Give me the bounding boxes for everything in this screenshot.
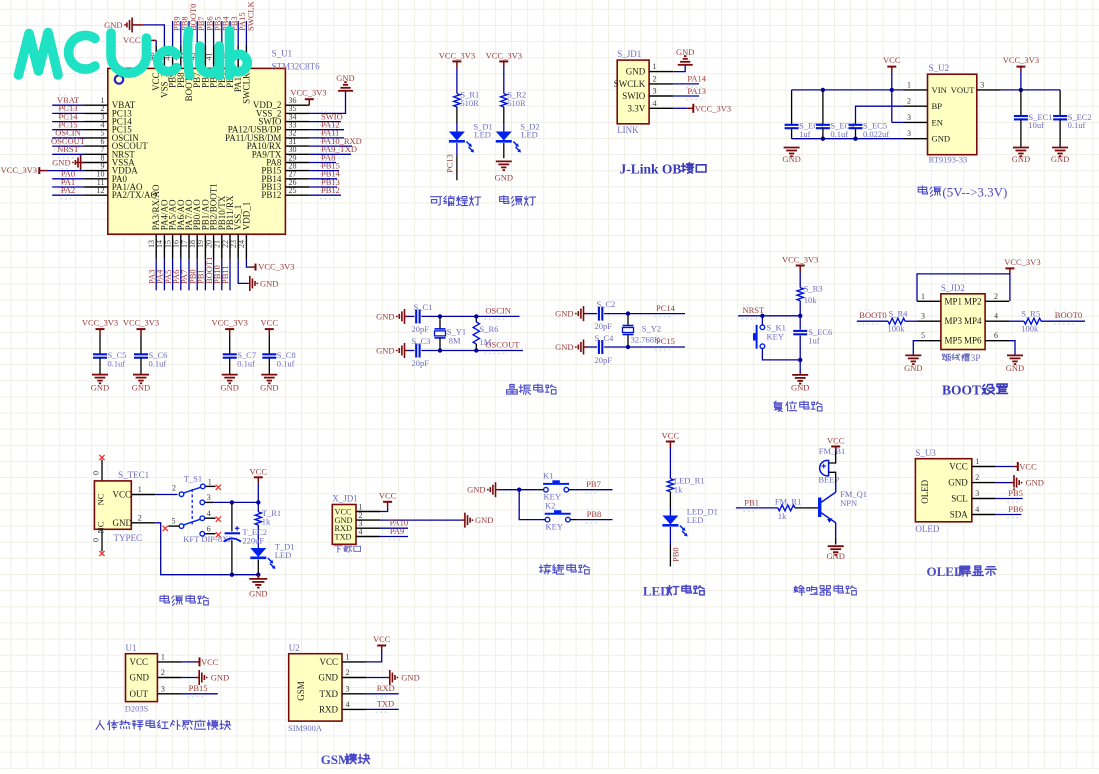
power VCC (U2)	[373, 634, 391, 649]
capacitor S_EC4	[816, 125, 830, 128]
ground (buzzer)	[826, 546, 844, 561]
wire	[503, 107, 505, 123]
svg-text:GND: GND	[626, 67, 646, 77]
pin 6 OSCOUT (left)	[84, 137, 148, 151]
svg-text:VIN: VIN	[932, 85, 948, 95]
wire	[99, 335, 101, 355]
svg-text:GND: GND	[555, 342, 573, 352]
junction	[474, 314, 478, 318]
svg-text:GND: GND	[91, 383, 109, 393]
label T_R1 1k	[262, 508, 281, 527]
svg-text:GND: GND	[948, 478, 968, 488]
svg-text:SCL: SCL	[951, 494, 968, 504]
node PA14	[686, 87, 702, 89]
wire	[52, 178, 84, 180]
wire	[835, 523, 837, 538]
svg-text:0.1uf: 0.1uf	[149, 358, 167, 368]
pin 44 BOOT0 (top)	[180, 45, 194, 101]
svg-text:1: 1	[161, 652, 165, 661]
svg-text:3: 3	[161, 684, 165, 693]
svg-text:GND: GND	[1012, 154, 1030, 164]
pin 2 PC13 (left)	[84, 104, 132, 118]
svg-text:GND: GND	[336, 73, 354, 83]
capacitor S_C2	[599, 307, 602, 321]
svg-text:S_JD1: S_JD1	[617, 49, 641, 59]
label T_D1 LED	[275, 542, 295, 561]
junction	[853, 137, 857, 141]
svg-text:VCC: VCC	[250, 466, 268, 476]
wire	[799, 316, 801, 330]
power VCC_3V3 (VOUT)	[1003, 55, 1039, 72]
wire	[570, 519, 576, 521]
label S_R4 100k	[888, 309, 909, 334]
power VCC_3V3 (VDD_2)	[290, 88, 326, 106]
pin 3 SCL (S_U3)	[951, 489, 996, 504]
resistor T_R1	[255, 512, 261, 525]
wire	[891, 72, 893, 90]
pin 5 OSCIN (left)	[84, 129, 139, 143]
svg-text:PC13: PC13	[445, 154, 455, 173]
wire EN riser	[891, 90, 893, 123]
svg-text:0.1uf: 0.1uf	[108, 358, 126, 368]
svg-text:220uF: 220uF	[242, 535, 264, 545]
buzzer FM_B1	[820, 460, 829, 475]
wire	[155, 259, 157, 291]
wire	[101, 460, 103, 481]
wire	[245, 21, 247, 45]
svg-text:VCC: VCC	[113, 490, 132, 500]
svg-text:S_C3: S_C3	[412, 336, 431, 346]
svg-text:U2: U2	[289, 643, 300, 653]
pin 40 PB4 (top)	[213, 45, 227, 88]
node PC13	[58, 116, 74, 118]
wire	[309, 170, 339, 172]
push button K2	[545, 510, 571, 522]
wire	[799, 336, 801, 360]
svg-text:3: 3	[346, 684, 350, 693]
label S_D2 LED	[520, 121, 539, 139]
wire	[917, 274, 1010, 301]
label label download port	[334, 545, 360, 552]
node PA9	[389, 539, 401, 541]
node PA10	[389, 531, 405, 533]
wire	[1059, 90, 1061, 116]
wire OSCIN rail	[421, 315, 519, 317]
wire	[99, 358, 101, 375]
svg-text:VCC_3V3: VCC_3V3	[1004, 257, 1040, 267]
svg-text:GND: GND	[555, 309, 573, 319]
no-connect (T_S1 pin1)	[216, 485, 221, 490]
svg-text:LED: LED	[521, 130, 538, 140]
MCU U1 STM32C8T6 body	[108, 68, 286, 234]
wire	[669, 447, 671, 479]
svg-text:1: 1	[907, 80, 911, 89]
label title buzzer circuit	[794, 585, 856, 595]
wire EN	[892, 121, 904, 123]
node RXD	[376, 696, 388, 698]
ground (MP6)	[1006, 355, 1024, 373]
svg-text:GND: GND	[52, 158, 70, 168]
svg-text:3: 3	[980, 80, 984, 89]
svg-text:OLED: OLED	[927, 564, 964, 579]
junction	[760, 314, 764, 318]
wire	[52, 112, 84, 114]
resistor S_R4	[888, 318, 905, 324]
junction	[798, 314, 802, 318]
pin 3 (T_S1)	[205, 493, 213, 502]
label title crystal circuit	[507, 384, 556, 394]
svg-text:S_TEC1: S_TEC1	[118, 470, 149, 480]
wire switch to VCC node	[213, 501, 258, 503]
svg-text:LINK: LINK	[617, 125, 639, 135]
power VCC_3V3 (S_C6)	[123, 318, 159, 335]
svg-text:LED: LED	[687, 515, 704, 525]
svg-text:1k: 1k	[778, 511, 787, 521]
junction	[798, 358, 802, 362]
label S_C2 20pF	[595, 299, 616, 331]
svg-text:510R: 510R	[460, 98, 479, 108]
junction	[626, 345, 630, 349]
svg-text:2: 2	[138, 513, 142, 522]
push button S_K1	[753, 325, 765, 349]
power VCC	[196, 657, 219, 667]
svg-text:4: 4	[653, 99, 657, 108]
pin 30 PA9/TX (right)	[252, 145, 310, 159]
svg-text:1uf: 1uf	[808, 335, 820, 345]
svg-text:S_U2: S_U2	[929, 63, 950, 73]
node PB5	[1007, 501, 1019, 503]
pin 36 VDD_2 (right)	[253, 96, 309, 110]
resistor LED_R1	[667, 479, 673, 492]
wire	[822, 90, 824, 125]
wire	[309, 145, 352, 147]
label S_C1 20pF	[412, 302, 433, 334]
wire	[188, 21, 190, 45]
pin 3 SWIO (S_JD1)	[622, 87, 673, 102]
connector S_TEC1 TYPEC	[94, 481, 131, 529]
svg-text:GND: GND	[467, 485, 485, 495]
svg-text:LED: LED	[275, 550, 292, 560]
svg-text:VCC: VCC	[123, 35, 141, 45]
svg-text:FM_B1: FM_B1	[819, 446, 845, 456]
pin 6 (T_S1)	[205, 524, 216, 533]
pin 1 (T_S1)	[205, 477, 215, 486]
svg-text:GND: GND	[932, 134, 951, 144]
svg-text:4: 4	[207, 509, 211, 518]
svg-text:0: 0	[92, 471, 101, 475]
wire	[503, 143, 505, 158]
wire	[439, 316, 441, 328]
svg-text:VCC: VCC	[319, 657, 338, 667]
LED LED_D1	[662, 516, 687, 537]
no-connect (TEC1 top)	[99, 455, 104, 460]
label S_EC6 1uf	[808, 327, 832, 346]
label title power 5V to 3.3V	[918, 185, 1007, 200]
wire	[140, 358, 142, 375]
svg-text:2: 2	[161, 668, 165, 677]
svg-text:MP3: MP3	[945, 316, 963, 326]
ground (U1)	[196, 670, 229, 685]
svg-text:6: 6	[207, 524, 211, 533]
svg-text:1: 1	[921, 292, 925, 301]
svg-text:5: 5	[921, 331, 925, 340]
wire	[221, 21, 223, 45]
svg-text:0.1uf: 0.1uf	[277, 358, 295, 368]
pin 7 NRST (left)	[84, 145, 135, 159]
svg-text:PC14: PC14	[656, 303, 676, 313]
LED S_D1	[449, 132, 474, 153]
svg-text:GND: GND	[260, 278, 278, 288]
capacitor S_C4	[599, 340, 602, 354]
pin 24 VDD_1 (bottom)	[237, 202, 251, 259]
wire	[795, 507, 804, 509]
pin 2 MP2 (S_JD2 right)	[964, 292, 1009, 307]
wire	[669, 545, 671, 567]
node PA0	[60, 181, 72, 183]
pin 1 (S_TEC1)	[131, 485, 155, 495]
wire	[257, 525, 259, 548]
wire	[237, 21, 239, 45]
svg-text:0.022uf: 0.022uf	[863, 129, 889, 139]
capacitor S_C6	[134, 354, 148, 357]
wire ground rail	[155, 523, 258, 575]
svg-text:VCC: VCC	[130, 657, 149, 667]
svg-text:J-Link OB: J-Link OB	[620, 162, 682, 177]
svg-text:KEY: KEY	[767, 332, 784, 342]
wire PC14 rail	[604, 313, 685, 315]
junction	[256, 573, 260, 577]
pin 1 GND (S_JD1)	[626, 62, 673, 77]
wire	[456, 143, 458, 156]
svg-text:T_S1: T_S1	[184, 474, 202, 484]
wire	[569, 489, 575, 491]
svg-text:4: 4	[359, 527, 363, 536]
svg-text:0: 0	[92, 538, 101, 542]
ground (S_JD1)	[676, 47, 694, 65]
svg-text:NC: NC	[96, 493, 106, 505]
capacitor S_C7	[223, 354, 237, 357]
wire	[48, 170, 84, 172]
wire BP	[856, 106, 904, 119]
power VCC	[662, 431, 680, 448]
pin 3 GND (S_U2)	[904, 129, 951, 144]
junction	[821, 137, 825, 141]
wire	[366, 708, 399, 710]
wire	[1009, 341, 1015, 356]
wire	[835, 482, 837, 492]
wire	[762, 349, 800, 360]
wire	[587, 313, 597, 315]
wire	[155, 494, 177, 496]
wire	[855, 120, 857, 125]
wire	[238, 259, 248, 284]
svg-text:GND: GND	[782, 154, 800, 164]
pin 12 PA2/TX/AO (left)	[84, 186, 157, 200]
svg-text:3: 3	[907, 113, 911, 122]
wire	[180, 21, 182, 45]
node PB13	[320, 190, 336, 192]
svg-text:GND: GND	[826, 551, 844, 561]
capacitor S_EC5	[849, 125, 863, 128]
wire	[52, 186, 84, 188]
svg-text:GND: GND	[249, 589, 267, 599]
svg-text:3: 3	[207, 493, 211, 502]
power VCC_3V3 (S_C7)	[212, 318, 248, 335]
wire	[1009, 320, 1024, 322]
svg-text:3: 3	[921, 312, 925, 321]
pin 4 (T_S1)	[205, 509, 216, 518]
resistor S_R6	[473, 322, 479, 344]
pin 39 PB3 (top)	[221, 45, 235, 88]
svg-text:GND: GND	[220, 383, 238, 393]
label S_D1 LED	[473, 121, 492, 139]
wire	[627, 335, 629, 347]
svg-text:KFT DIP-8X8: KFT DIP-8X8	[183, 534, 232, 544]
wire	[576, 519, 613, 521]
wire	[669, 508, 671, 516]
wire	[673, 65, 685, 72]
display S_U3 OLED	[915, 459, 971, 522]
svg-text:STM32C8T6: STM32C8T6	[272, 62, 321, 72]
label title BOOTx setting	[942, 383, 1008, 398]
label S_C8 0.1uf	[277, 350, 296, 368]
node PA9_TXD	[320, 157, 347, 159]
wire	[1020, 72, 1022, 90]
svg-text:OSCIN: OSCIN	[485, 306, 511, 316]
svg-text:S_Y2: S_Y2	[642, 324, 661, 334]
label title PIR module	[96, 720, 231, 730]
pin 2 GND (U1)	[130, 668, 182, 683]
wire	[172, 259, 174, 291]
svg-text:3: 3	[653, 87, 657, 96]
LED T_D1	[250, 548, 275, 569]
svg-text:20pF: 20pF	[412, 358, 430, 368]
wire	[257, 560, 259, 575]
wire	[673, 83, 699, 85]
svg-text:VCC_3V3: VCC_3V3	[1003, 55, 1039, 65]
svg-text:0.1uf: 0.1uf	[830, 129, 848, 139]
ground (X_JD1)	[461, 513, 493, 528]
pin 29 PA8 (right)	[266, 153, 309, 167]
svg-text:GND: GND	[113, 518, 133, 528]
svg-text:PA9: PA9	[390, 526, 404, 536]
node PA11	[320, 141, 336, 143]
pin 4 3.3V (S_JD1)	[628, 99, 674, 114]
power VCC (S_C8)	[261, 318, 279, 335]
wire	[855, 128, 857, 139]
svg-text:GND: GND	[319, 673, 339, 683]
node OSCOUT	[54, 149, 78, 151]
wire	[52, 121, 84, 123]
pin 43 PB7 (top)	[188, 45, 202, 88]
wire	[229, 335, 231, 355]
pin 9 VDDA (left)	[84, 161, 138, 175]
label S_Y2 32.768K	[631, 324, 662, 345]
wire	[456, 107, 458, 123]
svg-text:VCC: VCC	[261, 318, 279, 328]
no-connect (T_S1 pin5)	[163, 526, 168, 531]
wire	[913, 341, 917, 356]
wire	[163, 259, 165, 291]
label S_C7 0.1uf	[237, 350, 256, 368]
crystal S_Y1 8M	[435, 329, 446, 338]
label S_R5 100k	[1021, 309, 1040, 334]
label LED_D1 LED	[687, 507, 718, 526]
svg-text:GND: GND	[104, 20, 122, 30]
svg-text:VCC_3V3: VCC_3V3	[695, 103, 731, 113]
pin 35 VSS_2 (right)	[256, 104, 309, 118]
svg-text:EN: EN	[932, 117, 944, 127]
pin 16 PA6/AO (bottom)	[172, 199, 186, 259]
label title key circuit	[539, 564, 589, 574]
module U2 SIM900A	[289, 654, 342, 721]
node TXD	[376, 711, 388, 713]
node OSCIN	[484, 318, 504, 320]
wire	[1020, 119, 1022, 147]
svg-text:FM_R1: FM_R1	[775, 497, 801, 507]
power VCC_3V3 (S_C5)	[82, 318, 118, 335]
svg-text:OLED: OLED	[915, 524, 939, 534]
capacitor S_C8	[262, 354, 276, 357]
pin 17 PA7/AO (bottom)	[180, 199, 194, 259]
svg-text:VCC: VCC	[883, 55, 901, 65]
node PA8	[320, 165, 332, 167]
wire BOOT0 right	[1041, 320, 1085, 322]
node SWIO	[320, 124, 336, 126]
wire VIN rail	[792, 89, 904, 91]
ground (power circuit)	[249, 579, 267, 599]
svg-text:2: 2	[907, 97, 911, 106]
svg-text:S_C2: S_C2	[597, 299, 616, 309]
svg-text:PA13: PA13	[687, 86, 706, 96]
wire	[101, 529, 103, 551]
wire	[503, 123, 505, 132]
wire	[791, 128, 793, 139]
svg-text:NRST: NRST	[57, 144, 80, 154]
wire	[180, 259, 182, 291]
wire	[456, 156, 458, 180]
svg-text:S_C4: S_C4	[595, 333, 615, 343]
svg-text:S_R3: S_R3	[804, 283, 823, 293]
svg-text:S_R5: S_R5	[1021, 309, 1040, 319]
wire	[366, 677, 386, 679]
capacitor T_EC2 220uF (polarized)	[224, 526, 241, 542]
pin 3 RXD (X_JD1)	[335, 519, 381, 533]
node OSCIN	[56, 141, 76, 143]
svg-text:S_JD2: S_JD2	[941, 283, 965, 293]
ground (S_U2 in)	[782, 148, 800, 165]
svg-text:K2: K2	[545, 500, 555, 510]
svg-text:1k: 1k	[262, 517, 271, 527]
junction	[230, 573, 234, 577]
logo MCUclub	[19, 31, 248, 76]
wire	[309, 129, 344, 131]
ground (S_C2)	[555, 306, 587, 321]
wire	[231, 502, 233, 531]
label S_Y1 8M	[447, 327, 466, 346]
svg-text:VCC: VCC	[662, 431, 680, 441]
svg-text:PA14: PA14	[687, 74, 706, 84]
regulator S_U2 RT9193-33	[928, 74, 977, 155]
junction	[517, 488, 521, 492]
pin 34 SWIO (right)	[258, 112, 309, 126]
pin 3 TXD (U2)	[320, 684, 367, 699]
pin 48 VCC (top)	[147, 45, 161, 91]
svg-text:PB8: PB8	[587, 509, 602, 519]
ground (VSS_1)	[248, 276, 278, 291]
pin 23 VSS_1 (bottom)	[229, 205, 243, 259]
wire	[221, 259, 223, 291]
